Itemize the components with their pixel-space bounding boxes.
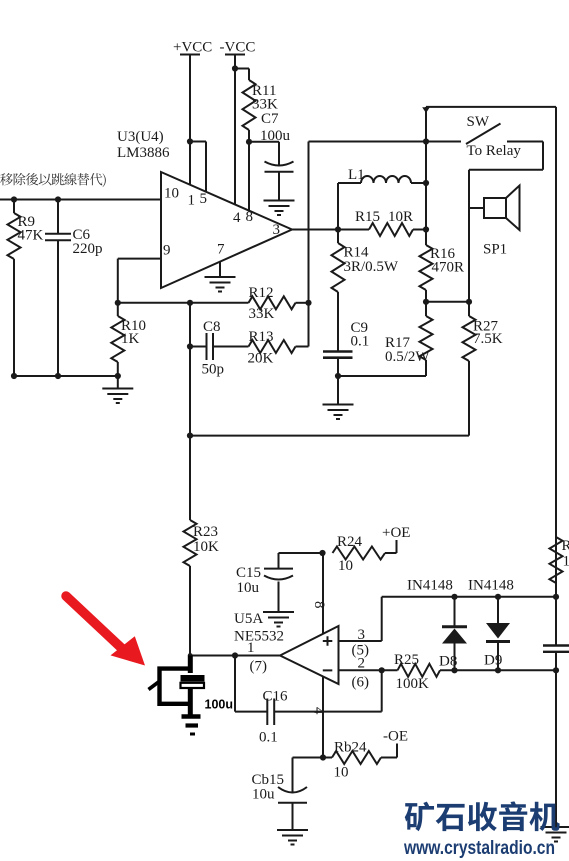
ground below C7 — [264, 201, 295, 216]
svg-text:100K: 100K — [396, 676, 430, 692]
svg-text:1K: 1K — [121, 331, 140, 347]
svg-text:LM3886: LM3886 — [117, 145, 170, 161]
capacitor C8 — [202, 319, 249, 378]
svg-text:1: 1 — [188, 193, 196, 209]
svg-text:+OE: +OE — [382, 525, 410, 541]
svg-text:(7): (7) — [250, 659, 268, 675]
diode D8 IN4148 — [407, 578, 467, 671]
inductor L1 — [338, 167, 426, 230]
svg-text:3: 3 — [273, 222, 281, 238]
wire R11 node to C7 — [249, 142, 279, 165]
svg-text:D9: D9 — [484, 653, 502, 669]
resistor R16 — [420, 230, 465, 305]
svg-text:Rb24: Rb24 — [334, 740, 367, 756]
svg-text:0.1: 0.1 — [351, 334, 370, 350]
svg-text:7.5K: 7.5K — [473, 331, 503, 347]
svg-text:C15: C15 — [236, 565, 261, 581]
svg-text:-OE: -OE — [383, 729, 408, 745]
ground below R10 bus — [102, 376, 133, 403]
svg-text:www.crystalradio.cn: www.crystalradio.cn — [403, 838, 555, 859]
wire +VCC rail to U3 pins 1 and 5 — [187, 55, 206, 192]
terminal +OE — [382, 525, 410, 553]
wire U5A pin 4 — [320, 676, 326, 761]
note text (remove and replace with jumper) — [0, 173, 106, 187]
ground below C15 — [263, 612, 294, 627]
power terminal -VCC — [220, 40, 256, 56]
svg-text:To Relay: To Relay — [467, 143, 522, 159]
svg-text:33K: 33K — [249, 306, 275, 322]
op-amp U5A NE5532 — [234, 601, 369, 715]
capacitor C17 on right rail — [543, 646, 569, 652]
svg-text:10R: 10R — [388, 209, 413, 225]
svg-text:10: 10 — [164, 186, 179, 202]
capacitor C6 — [45, 200, 103, 377]
resistor R10 — [111, 303, 146, 376]
svg-text:10K: 10K — [563, 554, 569, 570]
wire U5A pin 2 node — [339, 667, 398, 673]
resistor R27 — [463, 302, 503, 436]
svg-text:C16: C16 — [263, 689, 289, 705]
capacitor C7 — [260, 111, 294, 200]
ground below C9 — [323, 376, 354, 419]
svg-text:0.1: 0.1 — [259, 730, 278, 746]
svg-text:10: 10 — [334, 765, 349, 781]
ground at U3 pin 7 — [205, 262, 236, 292]
svg-text:10u: 10u — [237, 580, 260, 596]
terminal -OE — [383, 729, 408, 758]
capacitor C9 — [323, 320, 369, 376]
svg-text:R13: R13 — [249, 329, 274, 345]
wire feedback bus to lower stage — [187, 433, 469, 439]
resistor R14 — [332, 230, 399, 352]
svg-text:8: 8 — [311, 601, 327, 609]
svg-text:10K: 10K — [193, 539, 219, 555]
switch SW — [426, 114, 543, 159]
svg-text:220p: 220p — [73, 241, 103, 257]
resistor R17 — [385, 302, 433, 365]
svg-text:(6): (6) — [352, 675, 370, 691]
ground bottom right — [541, 827, 569, 842]
svg-text:IN4148: IN4148 — [468, 578, 514, 594]
svg-text:U5A: U5A — [234, 611, 263, 627]
svg-text:SP1: SP1 — [483, 242, 507, 258]
red arrow annotation — [66, 596, 145, 666]
svg-text:R26: R26 — [562, 538, 569, 554]
resistor R11 — [243, 80, 279, 130]
svg-text:SW: SW — [467, 114, 490, 130]
wire C8 branch — [187, 303, 207, 436]
resistor R25 — [394, 652, 556, 692]
speaker SP1 — [483, 186, 520, 258]
svg-text:+VCC: +VCC — [173, 40, 212, 56]
capacitor C15 — [236, 553, 323, 612]
wire R16 bottom to R27 top — [426, 299, 472, 305]
wire input node to U3 pin 10 — [0, 196, 161, 202]
svg-text:20K: 20K — [248, 351, 274, 367]
svg-text:3R/0.5W: 3R/0.5W — [344, 259, 399, 275]
svg-text:2: 2 — [358, 656, 366, 672]
wire R11 bottom node to U3 pin 8 — [246, 130, 252, 210]
svg-text:R24: R24 — [337, 534, 363, 550]
wire U5A pin 2 to C16 — [274, 670, 382, 711]
hand-drawn capacitor annotation (bold) — [149, 656, 234, 735]
wire U3 pin 9 to feedback node — [115, 259, 161, 306]
svg-text:47K: 47K — [18, 228, 44, 244]
wire mute rail (R12/R13 to SW node) — [309, 142, 427, 347]
svg-text:9: 9 — [163, 243, 171, 259]
svg-text:100u: 100u — [260, 128, 291, 144]
watermark logo text — [405, 801, 560, 831]
capacitor C16 — [235, 656, 288, 746]
svg-text:NE5532: NE5532 — [234, 629, 284, 645]
svg-text:R23: R23 — [193, 524, 218, 540]
wire U5A pin 3 to diode bus — [339, 594, 557, 641]
resistor R9 — [8, 200, 44, 377]
power terminal +VCC — [173, 40, 212, 56]
resistor R26 (edge) — [550, 537, 569, 583]
resistor Rb24 — [332, 740, 397, 781]
resistor R23 — [184, 436, 220, 656]
wire pin 4 bus — [293, 757, 333, 759]
svg-text:R12: R12 — [249, 285, 274, 301]
svg-text:0.5/2W: 0.5/2W — [385, 349, 430, 365]
capacitor Cb15 — [252, 758, 308, 830]
resistor R24 — [333, 534, 397, 574]
svg-text:50p: 50p — [202, 362, 225, 378]
svg-text:10u: 10u — [252, 787, 275, 803]
wire C9 node to R17 bottom — [335, 360, 426, 379]
resistor R15 — [355, 209, 426, 236]
wire bottom-left ground bus — [11, 373, 121, 379]
svg-text:-VCC: -VCC — [220, 40, 256, 56]
diode D9 IN4148 — [468, 578, 514, 671]
svg-text:5: 5 — [200, 191, 208, 207]
resistor R13 — [248, 329, 309, 367]
wire SW node rail — [422, 107, 430, 233]
watermark url — [403, 838, 555, 859]
svg-text:C8: C8 — [203, 319, 221, 335]
svg-text:U3(U4): U3(U4) — [117, 129, 164, 145]
svg-text:D8: D8 — [439, 654, 457, 670]
wire feedback node to R12 — [118, 300, 249, 306]
svg-text:7: 7 — [217, 242, 225, 258]
svg-text:100u: 100u — [205, 698, 234, 712]
svg-text:C7: C7 — [261, 111, 279, 127]
wire right rail — [553, 107, 559, 827]
wire U5A pin 8 supply — [319, 550, 325, 634]
resistor R12 — [249, 285, 312, 322]
svg-text:470R: 470R — [432, 260, 465, 276]
ground below Cb15 — [277, 830, 308, 845]
wire -VCC to R11 top — [235, 69, 249, 81]
svg-text:R25: R25 — [394, 652, 419, 668]
wire U5A output pin 1 node — [188, 652, 280, 658]
svg-text:1: 1 — [247, 640, 255, 656]
svg-text:R15: R15 — [355, 209, 380, 225]
svg-text:IN4148: IN4148 — [407, 578, 453, 594]
wire top bus to right rail — [426, 106, 556, 108]
svg-text:10: 10 — [338, 558, 353, 574]
svg-text:8: 8 — [246, 209, 254, 225]
wire -VCC rail to U3 pin 4 — [232, 55, 238, 205]
wire SW to relay / speaker branch — [469, 142, 543, 302]
wire U3 output pin 3 — [292, 226, 369, 232]
svg-text:4: 4 — [233, 210, 241, 226]
op-amp U3 LM3886 — [117, 129, 292, 288]
